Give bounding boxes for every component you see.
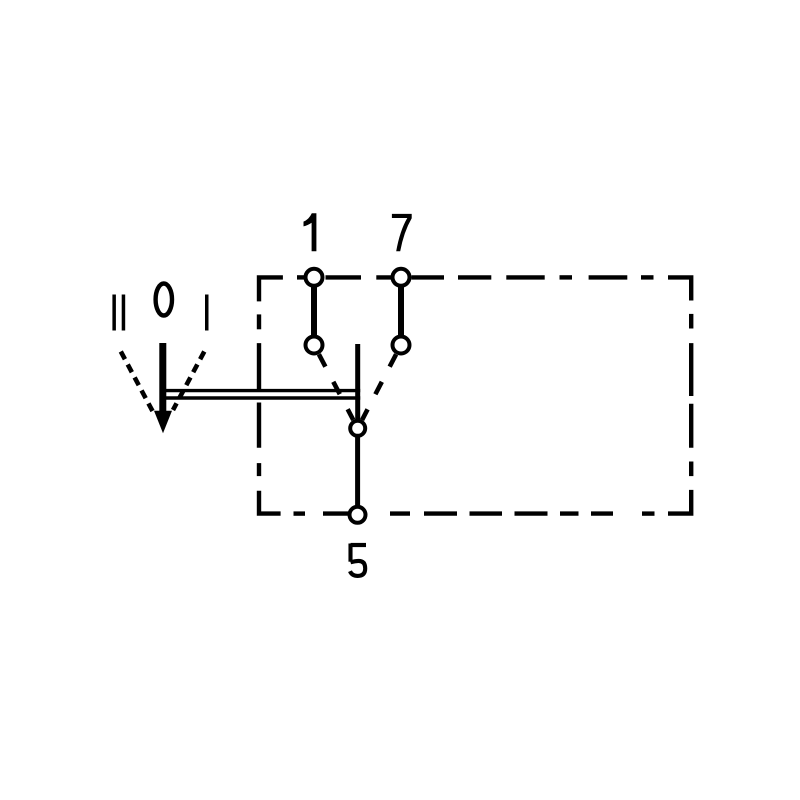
terminal label 5 xyxy=(350,544,366,576)
switch housing outline bottom edge xyxy=(259,491,655,514)
switch housing outline left edge xyxy=(257,314,261,476)
wire: stem from terminal 1 to movable contact 1 xyxy=(311,282,317,341)
lever arrow head xyxy=(154,411,172,434)
terminal 1 contact circle xyxy=(306,269,323,286)
position label I xyxy=(205,295,209,331)
switch housing outline right edge xyxy=(668,314,691,514)
terminal 7 contact circle xyxy=(393,269,410,286)
terminal 5 contact circle xyxy=(350,507,366,523)
dashed actuation line from contact 7 to pivot xyxy=(362,354,396,420)
switch housing outline (dash-dot box) top edge xyxy=(259,277,691,301)
wire: switch actuator vertical link xyxy=(355,344,360,420)
wire: pivot to terminal 5 xyxy=(355,434,360,508)
mechanical coupling double link lower bar xyxy=(162,396,360,399)
dashed actuation line from contact 1 to pivot xyxy=(319,354,353,420)
lever arrow (position 0) shaft xyxy=(159,343,166,418)
dashed lever throw line to position I xyxy=(173,352,204,411)
mechanical coupling double link upper bar xyxy=(162,389,360,392)
terminal label 7 xyxy=(392,214,412,251)
movable contact circle under terminal 1 xyxy=(306,337,323,354)
terminal label 1 xyxy=(304,213,317,251)
position label 0 xyxy=(156,284,172,316)
movable contact circle under terminal 7 xyxy=(393,337,410,354)
pivot contact circle xyxy=(350,421,365,436)
wire: stem from terminal 7 to movable contact 7 xyxy=(398,282,404,341)
position label II xyxy=(112,295,125,331)
dashed lever throw line to position II xyxy=(121,352,153,412)
